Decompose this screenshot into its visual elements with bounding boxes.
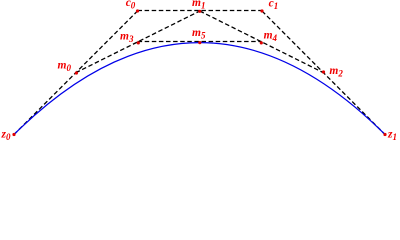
svg-text:m1: m1 xyxy=(192,0,205,10)
node m3 xyxy=(137,41,140,44)
svg-text:c0: c0 xyxy=(126,0,136,11)
node m5 xyxy=(198,41,201,44)
wire m3-m4 (dashed midpoint line) xyxy=(138,41,262,43)
wire z0-c0 (dashed control polygon) xyxy=(14,11,138,135)
wire c1-z1 (dashed control polygon) xyxy=(262,11,385,135)
node z0 xyxy=(12,133,15,136)
node z1 xyxy=(383,133,386,136)
svg-text:c1: c1 xyxy=(269,0,279,11)
bezier curve z0..z1 (blue) xyxy=(14,43,385,135)
node m2 xyxy=(322,70,325,73)
node c1 xyxy=(260,9,263,12)
wire c0-c1 (dashed control polygon) xyxy=(138,10,263,12)
node m0 xyxy=(75,71,78,74)
node c0 xyxy=(136,9,139,12)
wire m0-m1 (dashed midpoint line) xyxy=(76,11,200,73)
wire m1-m2 (dashed midpoint line) xyxy=(200,11,324,73)
node m4 xyxy=(260,41,263,44)
node m1 xyxy=(198,10,201,13)
